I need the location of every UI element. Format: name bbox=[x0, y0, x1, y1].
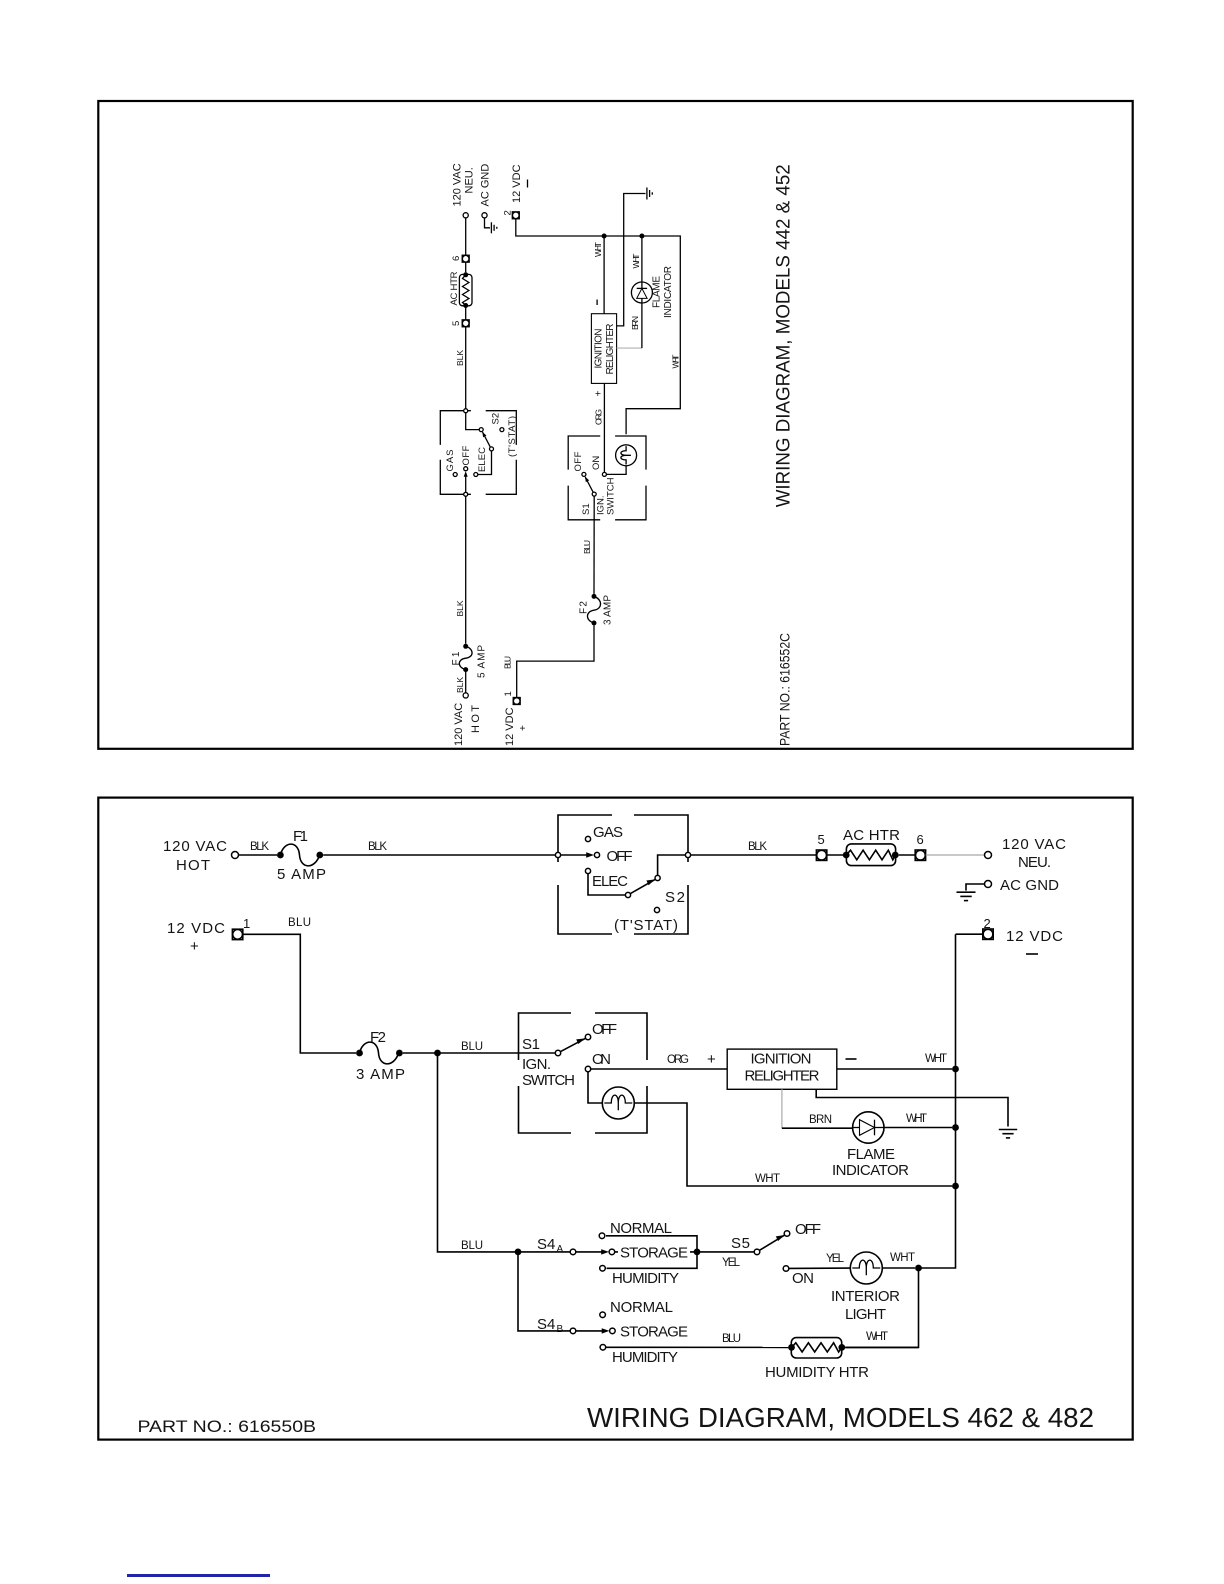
wire terminal 6 to NEU (top) bbox=[465, 218, 467, 255]
svg-text:BRN: BRN bbox=[630, 316, 640, 330]
ignition relighter (top) bbox=[591, 314, 616, 384]
svg-text:S2: S2 bbox=[665, 889, 685, 906]
svg-text:AC HTR: AC HTR bbox=[843, 827, 900, 844]
wire WHT relighter to bus (top) bbox=[593, 238, 604, 314]
svg-text:S4: S4 bbox=[537, 1236, 555, 1253]
wire main right vertical bus bbox=[919, 934, 956, 1268]
node junction S4 branch bbox=[515, 1249, 522, 1256]
node junction lamp return on main vertical bbox=[952, 1183, 959, 1190]
svg-text:HOT: HOT bbox=[470, 705, 482, 733]
S4A HUMIDITY position bbox=[600, 1266, 679, 1288]
terminal 6 (top) bbox=[451, 255, 469, 262]
S2 common terminal on left edge bbox=[555, 852, 560, 857]
svg-text:5 AMP: 5 AMP bbox=[477, 645, 488, 678]
terminal 2 (top, 12 VDC -) bbox=[503, 164, 528, 218]
svg-text:S5: S5 bbox=[731, 1235, 750, 1252]
svg-text:IGNITION: IGNITION bbox=[751, 1051, 812, 1068]
top sheet border frame bbox=[98, 101, 1132, 749]
svg-text:WHT: WHT bbox=[671, 355, 681, 369]
terminal 2 (12 VDC -) bbox=[983, 916, 1063, 954]
svg-text:+: + bbox=[190, 938, 199, 955]
node AC GND terminal bbox=[985, 877, 1060, 894]
svg-text:S1: S1 bbox=[522, 1036, 540, 1053]
svg-text:OFF: OFF bbox=[573, 451, 584, 471]
svg-text:BLU: BLU bbox=[722, 1333, 741, 1345]
S4B pivot contact bbox=[570, 1328, 576, 1334]
S2 T'STAT contact bbox=[654, 907, 659, 912]
wire WHT interior light to junction bbox=[882, 1252, 915, 1268]
svg-text:OFF: OFF bbox=[795, 1221, 821, 1238]
node 120 VAC NEU terminal bbox=[985, 836, 1067, 871]
wire BLU terminal 1 to F2 (top) bbox=[503, 626, 595, 698]
ground symbol (AC GND) bbox=[957, 892, 976, 900]
ground symbol (relighter) bbox=[999, 1130, 1017, 1138]
switch S2 enclosure (top) bbox=[440, 411, 516, 495]
svg-text:SWITCH: SWITCH bbox=[522, 1072, 575, 1089]
wire AC HTR to terminal 6 (top) bbox=[465, 262, 467, 272]
svg-text:(T'STAT): (T'STAT) bbox=[507, 416, 518, 457]
svg-text:B: B bbox=[557, 1324, 564, 1335]
S4B STORAGE position bbox=[610, 1324, 688, 1341]
svg-text:BLK: BLK bbox=[368, 841, 387, 853]
S2 arrow to OFF position bbox=[561, 852, 594, 858]
S2 T'STAT contact (top) bbox=[500, 428, 504, 432]
minus sign at relighter output bbox=[846, 1058, 857, 1060]
wire WHT pilot lamp return bbox=[634, 1103, 952, 1186]
wire AC GND stub (top) bbox=[485, 218, 491, 228]
wire BLU from F2 to S1 bbox=[403, 1041, 556, 1053]
wire BLK from F1 to S2 bbox=[323, 841, 558, 855]
lamp S1 pilot light (top) bbox=[616, 445, 637, 466]
svg-text:BLK: BLK bbox=[250, 841, 269, 853]
blue underline mark at page bottom bbox=[127, 1574, 271, 1577]
S2 lever arm with arrowhead bbox=[630, 879, 655, 893]
node junction relighter WHT bbox=[952, 1066, 959, 1073]
svg-text:WIRING DIAGRAM, MODELS 442 & 4: WIRING DIAGRAM, MODELS 442 & 452 bbox=[774, 164, 795, 507]
wire BLK from 120 VAC HOT to F1 bbox=[239, 841, 278, 855]
svg-text:INTERIOR: INTERIOR bbox=[831, 1288, 900, 1305]
wire WHT heater to junction bbox=[845, 1331, 918, 1347]
node junction on S4A bracket bbox=[694, 1249, 701, 1256]
S2 pivot contact bbox=[625, 892, 630, 897]
svg-text:AC GND: AC GND bbox=[1000, 877, 1059, 894]
svg-text:AC HTR: AC HTR bbox=[449, 271, 460, 305]
svg-text:BLK: BLK bbox=[748, 841, 767, 853]
svg-text:NORMAL: NORMAL bbox=[610, 1299, 673, 1316]
switch S1 IGN. SWITCH enclosure bbox=[519, 1013, 648, 1133]
terminal 6 bbox=[915, 832, 925, 860]
svg-text:6: 6 bbox=[451, 256, 462, 261]
wire relighter to chassis ground bbox=[816, 1089, 1008, 1126]
wire AC HTR to terminal 6 bbox=[899, 854, 916, 856]
wire S1 ON to pilot lamp (top) bbox=[606, 466, 626, 475]
switch S4B label bbox=[537, 1316, 564, 1335]
svg-text:NORMAL: NORMAL bbox=[610, 1220, 672, 1237]
wire (faint) terminal 6 to 120 VAC NEU bbox=[926, 854, 985, 856]
svg-text:ELEC: ELEC bbox=[477, 447, 488, 472]
resistor AC HTR (top) bbox=[449, 271, 472, 308]
S2 OFF position bbox=[594, 848, 632, 865]
svg-text:ON: ON bbox=[591, 456, 602, 470]
svg-text:WHT: WHT bbox=[925, 1053, 947, 1065]
svg-text:STORAGE: STORAGE bbox=[620, 1324, 688, 1341]
svg-text:BLU: BLU bbox=[582, 540, 592, 554]
svg-text:OFF: OFF bbox=[461, 445, 472, 465]
svg-text:120 VAC: 120 VAC bbox=[453, 703, 465, 746]
wire terminal 5 to AC HTR (top) bbox=[465, 306, 467, 320]
svg-text:OFF: OFF bbox=[592, 1021, 617, 1038]
S2 lever with arrowhead (top) bbox=[482, 432, 490, 447]
S5 OFF position bbox=[784, 1221, 821, 1238]
svg-text:12 VDC: 12 VDC bbox=[504, 707, 516, 746]
svg-text:12 VDC: 12 VDC bbox=[1006, 928, 1063, 945]
wire BLU branch to S4B bbox=[518, 1252, 570, 1331]
S4A STORAGE position and wire to S5 bbox=[609, 1244, 754, 1262]
S2 moving contact (top) bbox=[479, 428, 483, 432]
resistor AC HTR bbox=[843, 827, 900, 866]
svg-text:AC GND: AC GND bbox=[480, 164, 492, 207]
svg-text:BLU: BLU bbox=[503, 656, 513, 669]
wire terminal 5 to AC HTR bbox=[827, 854, 843, 856]
svg-text:WHT: WHT bbox=[890, 1252, 915, 1264]
svg-text:+: + bbox=[594, 391, 605, 397]
svg-text:ON: ON bbox=[592, 1051, 611, 1068]
svg-text:HUMIDITY: HUMIDITY bbox=[612, 1349, 678, 1366]
svg-text:WIRING DIAGRAM, MODELS 462 & 4: WIRING DIAGRAM, MODELS 462 & 482 bbox=[587, 1402, 1094, 1433]
svg-text:ELEC: ELEC bbox=[592, 873, 628, 890]
S4B NORMAL position bbox=[600, 1299, 673, 1318]
terminal 1 (12 VDC +) bbox=[167, 916, 250, 955]
svg-text:BLK: BLK bbox=[455, 600, 465, 616]
svg-text:5 AMP: 5 AMP bbox=[277, 866, 326, 883]
wire WHT down to humidity heater bbox=[845, 1268, 918, 1347]
S1 OFF position (top) bbox=[573, 451, 586, 476]
svg-text:BLU: BLU bbox=[288, 917, 311, 929]
fuse F1 5 AMP bbox=[277, 828, 326, 883]
S4A NORMAL position bbox=[599, 1220, 672, 1239]
wire ORG S1 ON to relighter (top) bbox=[594, 383, 605, 472]
wire WHT flame indicator to main vertical bbox=[884, 1113, 952, 1128]
S1 ON position (top) bbox=[591, 456, 606, 477]
svg-text:BRN: BRN bbox=[809, 1114, 832, 1126]
wire BLU S4B humidity to heater bbox=[606, 1333, 789, 1347]
fuse F2 3 AMP bbox=[356, 1029, 405, 1083]
wire from ELEC contact to S2 pivot bbox=[588, 874, 625, 895]
wire BRN stub from relighter bbox=[782, 1089, 853, 1128]
S2 output terminal (top) bbox=[464, 409, 468, 413]
S2 GAS position bbox=[585, 824, 623, 842]
wire BLK HOT to F1 (top) bbox=[455, 672, 466, 693]
lamp (S1 pilot light) bbox=[602, 1087, 634, 1119]
svg-text:F1: F1 bbox=[293, 828, 308, 845]
wire main vertical bus (top) bbox=[516, 219, 681, 435]
svg-text:F2: F2 bbox=[579, 601, 590, 614]
wire BLU from terminal 1 down to F2 bbox=[243, 917, 356, 1053]
svg-text:F2: F2 bbox=[370, 1029, 386, 1046]
label S1 IGN. SWITCH (top) bbox=[581, 477, 617, 515]
svg-text:WHT: WHT bbox=[866, 1331, 888, 1343]
svg-text:WHT: WHT bbox=[631, 254, 641, 269]
node AC GND terminal (top) bbox=[480, 164, 492, 218]
node junction flame WHT (top) bbox=[639, 234, 644, 239]
ignition relighter U1 bbox=[727, 1049, 837, 1089]
wire AC GND stub bbox=[966, 884, 985, 891]
svg-text:120 VAC: 120 VAC bbox=[163, 838, 227, 855]
svg-text:LIGHT: LIGHT bbox=[845, 1306, 886, 1323]
bottom sheet border frame bbox=[98, 798, 1132, 1440]
wire BLU branch down to S4A bbox=[438, 1053, 571, 1252]
terminal 5 bbox=[816, 832, 826, 860]
flame indicator diode bbox=[832, 1112, 909, 1179]
S2 ELEC position bbox=[585, 868, 628, 890]
resistor HUMIDITY HTR bbox=[765, 1338, 869, 1381]
wire ELEC to S2 pivot (top) bbox=[478, 451, 492, 475]
wire ORG from S1 ON to relighter bbox=[591, 1051, 728, 1069]
switch S2 (T'STAT) enclosure bbox=[558, 815, 688, 934]
svg-text:STORAGE: STORAGE bbox=[620, 1245, 688, 1262]
S1 pivot contact (top) bbox=[592, 492, 596, 496]
svg-text:S2: S2 bbox=[491, 413, 502, 425]
svg-text:(T'STAT): (T'STAT) bbox=[614, 917, 678, 934]
S1 OFF position bbox=[585, 1021, 617, 1040]
svg-text:RELIGHTER: RELIGHTER bbox=[745, 1068, 820, 1085]
S2 arrow to OFF (top) bbox=[464, 471, 468, 492]
node junction interior light WHT bbox=[915, 1265, 922, 1272]
fuse F2 3 AMP (top) bbox=[579, 594, 614, 626]
svg-text:S1: S1 bbox=[581, 503, 592, 515]
S5 ON position bbox=[783, 1266, 814, 1287]
wire S1 ON to pilot lamp bbox=[588, 1072, 602, 1103]
svg-text:GAS: GAS bbox=[445, 450, 456, 472]
svg-text:RELIGHTER: RELIGHTER bbox=[605, 324, 616, 375]
S1 lever with arrowhead (top) bbox=[585, 477, 593, 493]
svg-text:BLK: BLK bbox=[455, 350, 465, 366]
S4B HUMIDITY position bbox=[600, 1345, 678, 1367]
wire WHT flame indicator to bus (top) bbox=[631, 238, 642, 282]
S4A arrow to STORAGE bbox=[576, 1249, 609, 1254]
wire YEL S5 to interior light bbox=[789, 1253, 851, 1268]
svg-text:BLK: BLK bbox=[455, 677, 465, 693]
flame indicator diode (top) bbox=[631, 266, 674, 318]
svg-text:SWITCH: SWITCH bbox=[606, 477, 617, 515]
svg-text:3 AMP: 3 AMP bbox=[356, 1066, 405, 1083]
svg-text:120 VAC: 120 VAC bbox=[452, 163, 464, 206]
S4B arrow to STORAGE bbox=[576, 1328, 610, 1333]
svg-text:5: 5 bbox=[818, 832, 825, 847]
svg-text:ORG: ORG bbox=[667, 1054, 689, 1066]
S2 GAS position (top) bbox=[445, 450, 457, 477]
svg-text:WHT: WHT bbox=[755, 1173, 780, 1185]
svg-text:FLAME: FLAME bbox=[652, 276, 663, 308]
wire BLK S2 to terminal 5 (top) bbox=[455, 327, 466, 409]
node 120 VAC HOT terminal (top diagram) bbox=[453, 693, 482, 746]
ground symbol relighter (top) bbox=[647, 188, 652, 200]
terminal 1 (top, 12 VDC +) bbox=[503, 691, 529, 746]
svg-text:WHT: WHT bbox=[593, 242, 603, 257]
wire BRN relighter to flame indicator (top) bbox=[617, 303, 642, 348]
node 120 VAC NEU terminal (top) bbox=[452, 163, 476, 218]
svg-text:ON: ON bbox=[792, 1270, 814, 1287]
switch S5 bbox=[722, 1235, 785, 1269]
S2 output terminal on right edge bbox=[685, 852, 690, 857]
S4A pivot contact bbox=[570, 1249, 576, 1255]
svg-text:FLAME: FLAME bbox=[847, 1146, 895, 1163]
ground symbol AC GND (top) bbox=[491, 222, 496, 233]
switch S1 enclosure (top) bbox=[568, 436, 646, 520]
lamp interior light bbox=[831, 1252, 900, 1323]
S1 pivot contact bbox=[555, 1050, 560, 1055]
svg-text:1: 1 bbox=[243, 916, 250, 931]
wire from S2 moving contact to right edge bbox=[658, 855, 686, 875]
svg-text:BLU: BLU bbox=[461, 1041, 483, 1053]
svg-text:12 VDC: 12 VDC bbox=[167, 920, 225, 937]
node 120 VAC HOT terminal bbox=[163, 838, 239, 874]
minus sign at relighter (top) bbox=[596, 300, 598, 306]
wire terminal 2 to main vertical bbox=[956, 933, 983, 935]
svg-text:NEU.: NEU. bbox=[1018, 854, 1051, 871]
wire BLK from S2 to terminal 5 bbox=[691, 841, 816, 855]
svg-text:PART NO.: 616550B: PART NO.: 616550B bbox=[138, 1417, 317, 1436]
node junction flame WHT bbox=[952, 1124, 959, 1131]
svg-text:INDICATOR: INDICATOR bbox=[663, 266, 674, 318]
wire BLK F1 to S2 (top) bbox=[455, 496, 466, 644]
wire BLU F2 to S1 (top) bbox=[582, 496, 594, 594]
svg-text:5: 5 bbox=[451, 321, 462, 326]
svg-text:IGNITION: IGNITION bbox=[594, 329, 605, 369]
S1 ON position bbox=[585, 1051, 611, 1072]
terminal 5 (top) bbox=[451, 320, 469, 327]
svg-text:6: 6 bbox=[917, 832, 924, 847]
svg-text:YEL: YEL bbox=[826, 1253, 845, 1265]
S2 ELEC position (top) bbox=[474, 447, 488, 477]
label S1 IGN. SWITCH bbox=[522, 1036, 575, 1089]
S2 common terminal (top) bbox=[464, 492, 468, 496]
svg-text:YEL: YEL bbox=[722, 1257, 741, 1269]
S4A bracket bbox=[606, 1236, 697, 1269]
switch S4A label bbox=[537, 1236, 564, 1255]
svg-text:INDICATOR: INDICATOR bbox=[832, 1162, 909, 1179]
svg-text:1: 1 bbox=[503, 691, 514, 696]
wire moving contact to right edge (top) bbox=[466, 413, 480, 430]
svg-text:12 VDC: 12 VDC bbox=[511, 164, 523, 203]
svg-text:NEU.: NEU. bbox=[464, 167, 476, 193]
svg-text:A: A bbox=[557, 1244, 564, 1255]
svg-text:GAS: GAS bbox=[593, 824, 623, 841]
svg-text:ORG: ORG bbox=[594, 409, 604, 425]
svg-text:+: + bbox=[518, 725, 529, 731]
node junction relighter WHT (top) bbox=[602, 234, 607, 239]
svg-text:BLU: BLU bbox=[461, 1240, 483, 1252]
svg-text:OFF: OFF bbox=[607, 848, 633, 865]
S2 moving contact bbox=[655, 875, 660, 880]
svg-text:3 AMP: 3 AMP bbox=[603, 595, 614, 625]
svg-text:WHT: WHT bbox=[906, 1113, 927, 1125]
svg-text:PART NO.: 616552C: PART NO.: 616552C bbox=[776, 633, 792, 746]
svg-text:IGN.: IGN. bbox=[522, 1056, 551, 1073]
svg-text:HUMIDITY: HUMIDITY bbox=[612, 1270, 679, 1287]
svg-text:HOT: HOT bbox=[176, 857, 210, 874]
fuse F1 5 AMP (top) bbox=[451, 644, 488, 678]
S2 OFF position (top) bbox=[461, 445, 472, 470]
wire relighter to chassis ground (top) bbox=[617, 194, 646, 326]
S2 pivot contact (top) bbox=[490, 447, 494, 451]
S1 lever with arrowhead bbox=[560, 1038, 585, 1051]
junction to humidity switch branch bbox=[434, 1050, 441, 1057]
wire WHT relighter to main vertical bbox=[837, 1053, 952, 1069]
svg-text:120 VAC: 120 VAC bbox=[1002, 836, 1066, 853]
svg-text:+: + bbox=[707, 1051, 716, 1068]
svg-text:HUMIDITY HTR: HUMIDITY HTR bbox=[765, 1364, 869, 1381]
